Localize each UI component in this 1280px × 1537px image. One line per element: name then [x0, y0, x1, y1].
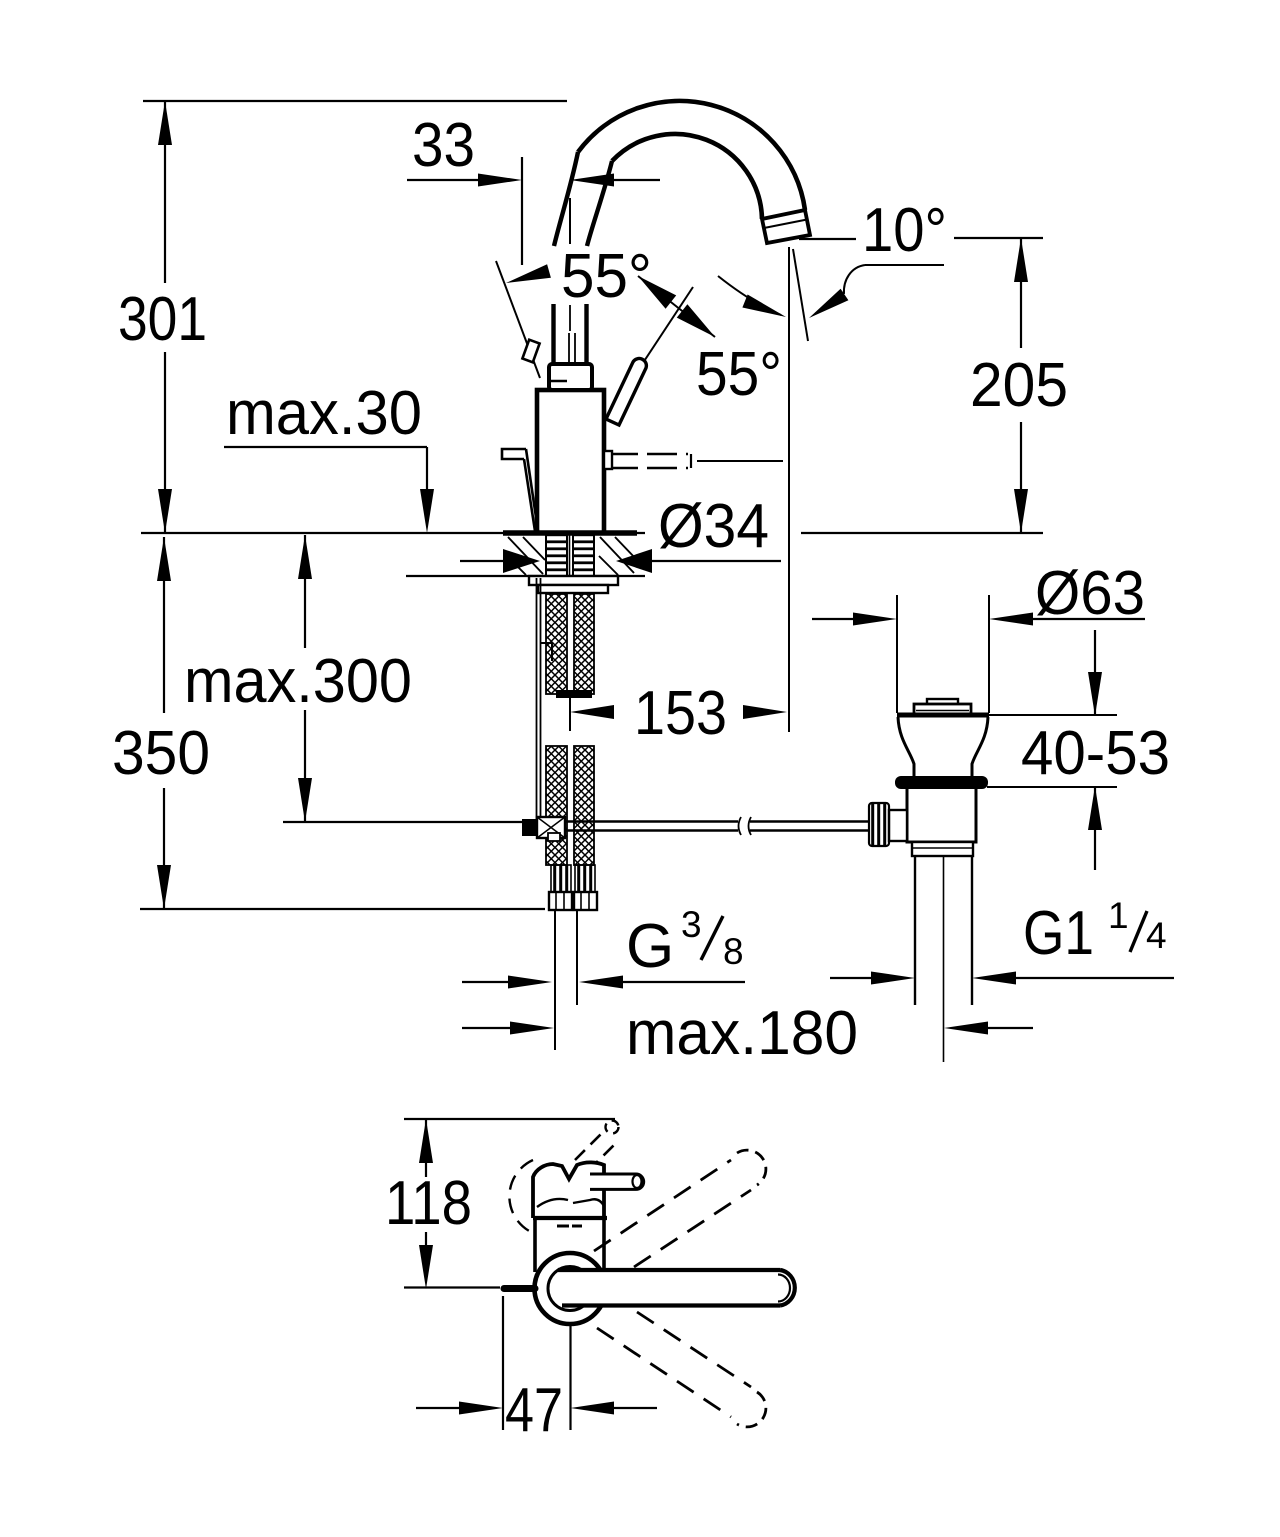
side outlet stub: [604, 451, 612, 469]
supply pipe left: [554, 910, 556, 1050]
faucet body top view: [533, 1216, 607, 1220]
10 deg arc left with arrow: [718, 276, 781, 315]
hose nut right: [574, 892, 597, 910]
mounting nut: [538, 585, 608, 593]
svg-text:8: 8: [723, 931, 744, 972]
spout bearing inner circle: [548, 1267, 592, 1311]
flexible hose lower left: [546, 746, 567, 865]
dashed spout arm up-right: [594, 1160, 731, 1251]
svg-text:G: G: [626, 912, 674, 981]
svg-text:max.30: max.30: [226, 379, 422, 448]
dimension max.300: [298, 535, 312, 579]
pop-up head cap: [927, 699, 958, 705]
350 bottom reference line: [140, 908, 545, 910]
svg-text:55°: 55°: [696, 340, 782, 409]
dimension 47: [502, 1296, 504, 1430]
svg-text:33: 33: [412, 111, 475, 180]
max.300 bottom reference line: [283, 821, 522, 823]
dimension max.30 leader: [224, 446, 427, 448]
pull rod center line: [569, 305, 571, 331]
svg-text:350: 350: [112, 719, 210, 788]
svg-text:3: 3: [681, 904, 702, 945]
supply pipe right: [576, 910, 578, 1005]
55 lever double arrow line: [638, 276, 715, 337]
dimension Ø63: [812, 618, 854, 620]
rod pivot block: [522, 819, 537, 836]
deck top line: [141, 532, 645, 534]
pop-up seal ring: [895, 776, 988, 789]
pop-up pull handle on body: [502, 449, 526, 459]
deck hatching: [506, 537, 636, 575]
dimension 205 vertical line: [1020, 238, 1022, 348]
pop-up bottom collar: [912, 842, 973, 856]
deck bottom line: [406, 575, 645, 577]
hose nut left: [549, 892, 572, 910]
lever handle: [606, 358, 646, 425]
dimension 301 vertical line: [164, 101, 166, 283]
pull rod knob: [522, 340, 539, 363]
spout neck tilted section right: [587, 161, 612, 246]
Ø63 extension lines: [896, 595, 898, 713]
svg-text:4: 4: [1146, 915, 1167, 956]
spout neck tilted section left: [554, 152, 578, 246]
riser pipe right edge: [584, 304, 588, 366]
33 extension line left: [521, 157, 523, 265]
aerator at spout tip: [762, 210, 810, 243]
dashed lever swung position: [575, 1133, 602, 1160]
33 extension line right: [569, 198, 571, 244]
hose threaded end right: [575, 865, 595, 892]
spout bearing outer circle: [535, 1253, 606, 1324]
svg-text:Ø34: Ø34: [658, 492, 769, 561]
rod guide clip: [541, 643, 552, 661]
top reference line of 301: [143, 100, 567, 102]
riser pipe left edge: [551, 304, 555, 366]
faucet dome top view: [533, 1162, 604, 1218]
angular dimension 55 (pull rod) reference line: [496, 261, 540, 378]
dashed spout arm down-right: [637, 1312, 751, 1387]
pop-up flange: [897, 713, 989, 718]
flexible hose upper left: [546, 594, 567, 694]
svg-text:40-53: 40-53: [1021, 719, 1170, 788]
flexible hose lower right: [574, 746, 594, 865]
55 deg arrow on knob line: [506, 264, 551, 283]
body marks: [557, 1225, 569, 1228]
angular dimension 55 (lever) leader line through lever: [602, 287, 693, 425]
svg-text:G1: G1: [1023, 899, 1094, 968]
svg-text:Ø63: Ø63: [1035, 559, 1145, 628]
horizontal pop-up rod: [565, 820, 738, 822]
mounting washer: [529, 576, 618, 585]
dome inner wavy lines: [537, 1199, 568, 1207]
118 bottom reference line: [404, 1286, 500, 1288]
svg-text:10°: 10°: [862, 196, 947, 265]
svg-text:max.180: max.180: [626, 999, 858, 1068]
water stream 10 deg slanted line: [793, 249, 808, 341]
faucet body: [537, 390, 604, 533]
escutcheon base thick: [503, 530, 637, 536]
118 top reference line: [404, 1118, 615, 1120]
svg-text:47: 47: [505, 1376, 563, 1445]
dimension 10 deg leader lines: [799, 238, 856, 240]
dimension Ø34: [460, 560, 504, 562]
pop-up body: [907, 789, 976, 842]
dimension 350: [157, 537, 171, 581]
dimension 301 arrow down: [158, 489, 172, 533]
water stream vertical extension line: [788, 247, 790, 732]
hose coupling dark: [556, 690, 592, 698]
svg-text:301: 301: [118, 285, 207, 354]
dimension 33: [407, 179, 479, 181]
dimension 40-53: [989, 714, 1117, 716]
knurled adjuster knob: [869, 803, 889, 846]
tail pipe: [914, 856, 916, 1005]
svg-text:153: 153: [634, 679, 727, 748]
threaded shank: [546, 535, 567, 576]
pull rod top view: [504, 1285, 535, 1292]
cartridge neck: [549, 364, 592, 390]
flexible hose upper right: [574, 594, 594, 694]
spout outer arc: [578, 101, 805, 210]
svg-text:205: 205: [970, 351, 1068, 420]
pop-up pull rod below deck: [536, 578, 538, 820]
10 deg bent leader with arrow: [865, 264, 944, 266]
svg-text:1: 1: [1108, 895, 1129, 936]
dimension max.180: [462, 1027, 510, 1029]
spout tube top view: [562, 1272, 780, 1304]
hose threaded end left: [551, 865, 571, 892]
svg-text:max.300: max.300: [184, 647, 412, 716]
spout inner arc: [612, 134, 762, 219]
dimension 153: [569, 696, 571, 731]
svg-text:118: 118: [385, 1169, 472, 1238]
205 bottom reference line: [801, 532, 1043, 534]
side port: [889, 810, 907, 841]
hidden side outlet dashed: [608, 453, 688, 455]
dimension 301 arrow up: [158, 101, 172, 145]
spout end cap: [780, 1270, 795, 1306]
side outlet center line: [697, 460, 783, 462]
dimension 118: [419, 1119, 433, 1163]
lever top view: [590, 1174, 644, 1189]
dashed swivel arc left: [509, 1160, 533, 1232]
